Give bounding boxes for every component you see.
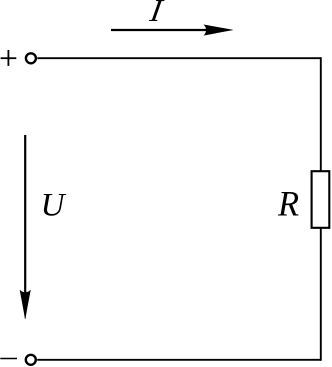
current arrow I — [111, 25, 233, 35]
resistor R — [312, 171, 330, 228]
svg-text:I: I — [147, 0, 166, 28]
wire right upper — [320, 57, 322, 171]
terminal bottom-left — [26, 355, 36, 365]
svg-text:U: U — [41, 188, 67, 224]
wire right lower — [320, 228, 322, 361]
wire bottom — [37, 359, 321, 361]
wire top — [37, 57, 321, 59]
minus polarity mark — [0, 358, 17, 360]
terminal top-left — [26, 53, 36, 63]
svg-text:R: R — [277, 183, 299, 224]
voltage arrow U — [20, 135, 30, 319]
plus polarity mark — [1, 50, 17, 66]
